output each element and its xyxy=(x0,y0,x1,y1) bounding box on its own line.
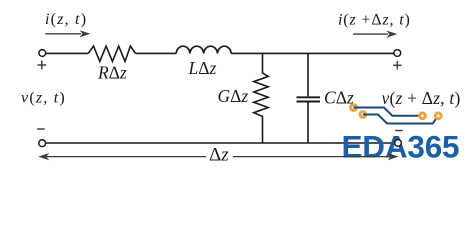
logo pad 2 xyxy=(359,110,368,119)
svg-text:CΔz: CΔz xyxy=(324,88,354,108)
svg-text:Δz: Δz xyxy=(209,145,229,166)
wire bottom xyxy=(46,142,394,144)
terminal circle top-left xyxy=(39,50,46,57)
wire top: inductor to right terminal xyxy=(231,52,394,54)
svg-text:i(z, t): i(z, t) xyxy=(45,11,87,28)
svg-text:GΔz: GΔz xyxy=(218,86,249,106)
capacitor CΔz branch xyxy=(297,53,321,143)
current arrow right xyxy=(353,31,397,38)
logo pad 3 xyxy=(418,111,427,120)
svg-text:RΔz: RΔz xyxy=(97,63,127,83)
terminal circle bottom-left xyxy=(39,140,46,147)
logo trace upper xyxy=(354,108,423,116)
current arrow left xyxy=(45,30,90,37)
plus sign left xyxy=(38,61,47,70)
svg-text:v(z + Δz, t): v(z + Δz, t) xyxy=(382,88,461,108)
wire top: resistor to inductor xyxy=(136,52,176,54)
minus sign left xyxy=(37,128,44,130)
plus sign right xyxy=(393,61,402,70)
terminal circle bottom-right xyxy=(395,140,402,147)
resistor RΔz xyxy=(88,46,136,61)
terminal circle top-right xyxy=(394,50,401,57)
minus sign right xyxy=(395,130,403,132)
svg-text:v(z, t): v(z, t) xyxy=(21,90,66,107)
inductor LΔz xyxy=(176,46,231,53)
dimension arrow Δz xyxy=(38,153,398,160)
svg-text:i(z +Δz, t): i(z +Δz, t) xyxy=(338,12,411,29)
conductance GΔz branch xyxy=(254,53,268,143)
logo pad 4 xyxy=(434,111,443,120)
wire top: left terminal to resistor xyxy=(46,52,88,54)
logo trace lower xyxy=(363,115,438,124)
logo pad 1 xyxy=(349,103,358,112)
svg-text:LΔz: LΔz xyxy=(188,58,217,78)
svg-text:EDA365: EDA365 xyxy=(342,129,460,165)
